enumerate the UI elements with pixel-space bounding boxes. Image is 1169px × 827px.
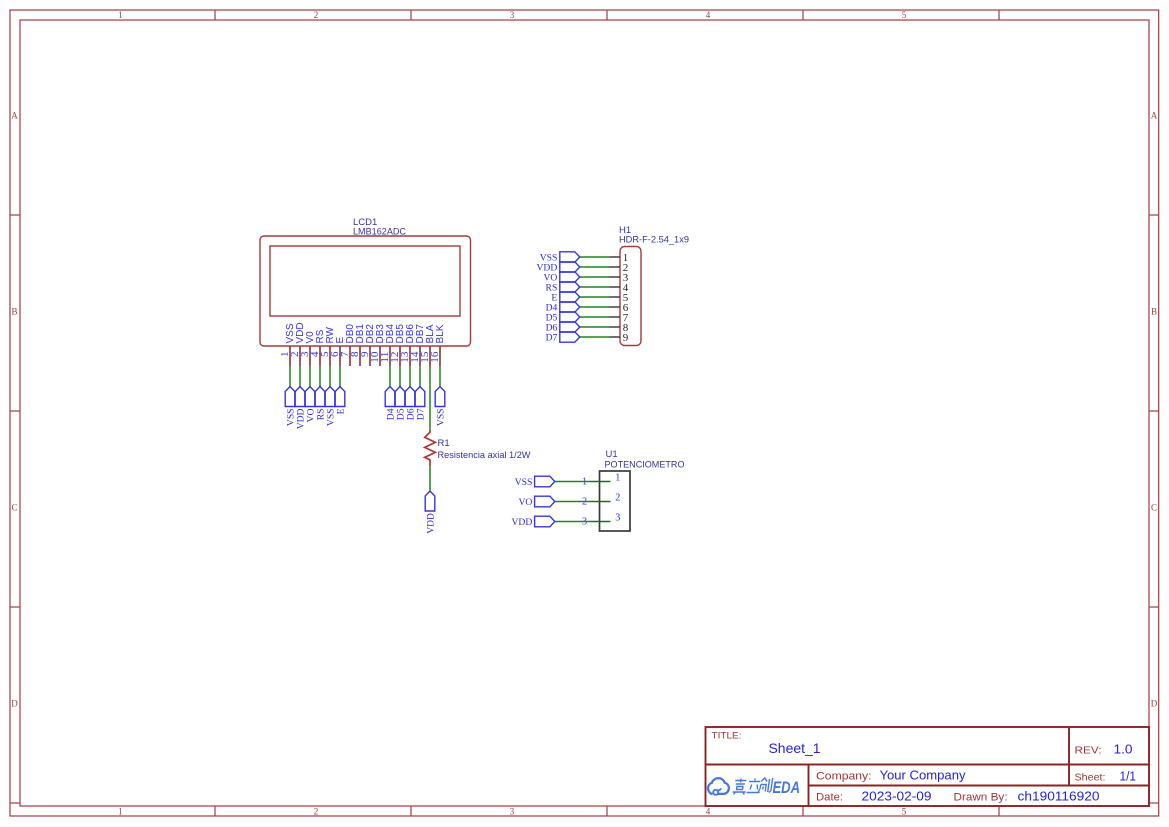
svg-text:Sheet_1: Sheet_1 (769, 740, 821, 756)
svg-text:2023-02-09: 2023-02-09 (862, 789, 932, 804)
svg-text:R1: R1 (438, 438, 450, 449)
svg-text:VDD: VDD (512, 517, 533, 528)
svg-text:POTENCIOMETRO: POTENCIOMETRO (605, 460, 685, 471)
LCD1 pin 5 (RW) (320, 326, 336, 366)
H1 pin 1 (610, 252, 629, 264)
svg-text:VDD: VDD (425, 513, 436, 534)
svg-text:REV:: REV: (1075, 745, 1102, 757)
svg-text:HDR-F-2.54_1x9: HDR-F-2.54_1x9 (619, 235, 689, 246)
svg-text:D: D (1151, 699, 1158, 709)
resistor R1 (425, 430, 436, 466)
svg-text:3: 3 (510, 10, 515, 20)
wire from net flag VDD to H1 pin 2 (580, 266, 610, 268)
net flag VSS (pin 5) (325, 387, 336, 427)
net flag D5 (H1 pin 7) (546, 312, 580, 324)
wire from LCD1 pin 14 to net flag D7 (419, 366, 421, 387)
wire from LCD1 pin 5 to net flag VSS (329, 366, 331, 387)
wire from R1 to net flag VDD (429, 466, 431, 491)
svg-text:1: 1 (118, 806, 123, 816)
svg-text:C: C (1151, 503, 1157, 513)
svg-text:D: D (11, 699, 18, 709)
wire from net flag RS to H1 pin 4 (580, 286, 610, 288)
U1 pin 3 (582, 513, 620, 528)
wire from net flag D7 to H1 pin 9 (580, 336, 610, 338)
U1 pin 2 (582, 493, 620, 508)
svg-text:C: C (11, 503, 17, 513)
LCD1 pin 16 (BLK) (430, 324, 446, 366)
wire from LCD1 pin 16 to net flag VSS (439, 366, 441, 387)
H1 pin 3 (610, 272, 629, 284)
svg-text:1.0: 1.0 (1114, 742, 1133, 757)
svg-text:16: 16 (430, 352, 441, 363)
wire from net flag VO to U1 pin 2 (555, 501, 590, 503)
LCD1 pin 4 (RS) (310, 329, 326, 366)
svg-text:5: 5 (902, 10, 907, 20)
net flag VDD (pin 2) (295, 387, 306, 430)
wire from net flag VDD to U1 pin 3 (555, 521, 590, 523)
LCD1 pin 7 (DB0) (340, 324, 356, 366)
svg-text:1: 1 (118, 10, 123, 20)
H1 pin 5 (610, 292, 629, 304)
net flag D7 (pin 14) (415, 387, 426, 421)
wire from LCD1 pin 6 to net flag E (339, 366, 341, 387)
LCD1 pin 13 (DB6) (400, 324, 416, 366)
svg-text:EDA: EDA (773, 778, 801, 797)
net flag RS (pin 4) (315, 387, 326, 421)
net flag RS (H1 pin 4) (546, 282, 580, 294)
net flag D4 (H1 pin 6) (546, 302, 580, 314)
LCD1 pin 3 (V0) (300, 331, 316, 366)
wire from net flag D6 to H1 pin 8 (580, 326, 610, 328)
wire from LCD1 pin 4 to net flag RS (319, 366, 321, 387)
svg-text:D7: D7 (546, 332, 558, 343)
net flag VDD (U1 pin 3) (512, 516, 555, 528)
net flag E (H1 pin 5) (551, 292, 579, 304)
LCD1 pin 10 (DB3) (370, 324, 386, 366)
H1 body outline (620, 247, 641, 346)
LCD1 pin 11 (DB4) (380, 324, 396, 366)
svg-text:Your Company: Your Company (880, 768, 967, 783)
net flag VSS (pin 1) (285, 387, 296, 427)
svg-text:TITLE:: TITLE: (712, 731, 742, 742)
net flag D6 (pin 13) (405, 387, 416, 421)
U1 pin 1 (582, 473, 620, 488)
svg-text:BLK: BLK (435, 324, 446, 343)
svg-text:U1: U1 (606, 449, 618, 460)
svg-text:ch190116920: ch190116920 (1018, 789, 1100, 804)
svg-text:A: A (11, 111, 18, 121)
LCD1 pin 14 (DB7) (410, 324, 426, 366)
H1 pin 9 (610, 332, 629, 344)
svg-text:VSS: VSS (435, 409, 446, 427)
svg-text:4: 4 (706, 806, 711, 816)
H1 pin 4 (610, 282, 629, 294)
svg-text:5: 5 (902, 806, 907, 816)
net flag VSS (pin 16) (435, 387, 446, 427)
H1 pin 2 (610, 262, 629, 274)
net flag VO (H1 pin 3) (543, 272, 579, 284)
U1 body outline (600, 471, 631, 531)
svg-text:4: 4 (706, 10, 711, 20)
svg-text:9: 9 (623, 332, 629, 344)
net flag D7 (H1 pin 9) (546, 332, 580, 344)
svg-text:2: 2 (314, 10, 319, 20)
wire from LCD1 pin 15 (BLA) down to resistor R1 (429, 366, 431, 430)
H1 pin 8 (610, 322, 629, 334)
svg-text:B: B (11, 307, 17, 317)
svg-text:Resistencia axial 1/2W: Resistencia axial 1/2W (438, 450, 531, 461)
LCD1 pin 12 (DB5) (390, 324, 406, 366)
svg-text:2: 2 (615, 493, 620, 504)
svg-text:B: B (1151, 307, 1157, 317)
svg-text:Sheet:: Sheet: (1075, 772, 1106, 784)
net flag VDD (H1 pin 2) (537, 262, 580, 274)
wire from LCD1 pin 2 to net flag VDD (299, 366, 301, 387)
net flag VO (pin 3) (305, 387, 316, 423)
wire from LCD1 pin 12 to net flag D5 (399, 366, 401, 387)
svg-text:1: 1 (615, 473, 620, 484)
net flag D6 (H1 pin 8) (546, 322, 580, 334)
svg-text:1/1: 1/1 (1120, 769, 1137, 784)
svg-text:E: E (335, 408, 346, 414)
net flag E (pin 6) (335, 387, 346, 415)
svg-text:VO: VO (518, 497, 532, 508)
LCD1 pin 9 (DB2) (360, 324, 376, 366)
wire from net flag E to H1 pin 5 (580, 296, 610, 298)
net flag D5 (pin 12) (395, 387, 406, 421)
net flag VSS (U1 pin 1) (515, 476, 555, 488)
LCD1 body outline (260, 236, 471, 346)
svg-text:Drawn By:: Drawn By: (954, 792, 1008, 804)
net flag D4 (pin 11) (385, 387, 396, 421)
svg-text:3: 3 (615, 513, 620, 524)
svg-text:Date:: Date: (816, 792, 843, 804)
H1 pin 6 (610, 302, 629, 314)
wire from LCD1 pin 1 to net flag VSS (289, 366, 291, 387)
svg-text:2: 2 (314, 806, 319, 816)
svg-text:3: 3 (510, 806, 515, 816)
net flag VO (U1 pin 2) (518, 496, 554, 508)
wire from LCD1 pin 13 to net flag D6 (409, 366, 411, 387)
LCD1 pin 2 (VDD) (290, 322, 306, 366)
svg-text:A: A (1151, 111, 1158, 121)
LCD1 pin 6 (E) (330, 337, 346, 367)
net flag VSS (H1 pin 1) (540, 252, 580, 263)
LCD1 screen inner rectangle (270, 246, 460, 316)
wire from net flag D5 to H1 pin 7 (580, 316, 610, 318)
wire from net flag VO to H1 pin 3 (580, 276, 610, 278)
LCD1 pin 15 (BLA) (420, 324, 436, 366)
wire from net flag VSS to H1 pin 1 (580, 256, 610, 258)
wire from net flag VSS to U1 pin 1 (555, 481, 590, 483)
net flag VDD (below R1) (425, 491, 436, 534)
wire from net flag D4 to H1 pin 6 (580, 306, 610, 308)
svg-text:Company:: Company: (816, 771, 872, 783)
wire from LCD1 pin 11 to net flag D4 (389, 366, 391, 387)
LCD1 pin 1 (VSS) (280, 323, 296, 366)
svg-text:D7: D7 (415, 408, 426, 420)
wire from LCD1 pin 3 to net flag VO (309, 366, 311, 387)
LCD1 pin 8 (DB1) (350, 324, 366, 366)
H1 pin 7 (610, 312, 629, 324)
svg-text:VSS: VSS (515, 477, 533, 488)
